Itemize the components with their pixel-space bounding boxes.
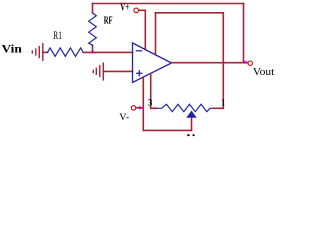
ground G2 (rotated, at non-inverting input) [93, 63, 103, 80]
wire V+ terminal stub [139, 9, 146, 11]
wire pin 5 top horizontal [156, 12, 224, 14]
svg-text:1: 1 [221, 99, 225, 109]
wire pin 5 right vertical down to pot [222, 13, 224, 109]
ground G1 (rotated, at input) [32, 44, 43, 61]
svg-text:V+: V+ [120, 1, 129, 13]
wire pin 5 vertical from op-amp top edge [155, 13, 157, 55]
svg-text:R1: R1 [53, 30, 62, 42]
wire node A up to RF bottom [92, 45, 94, 52]
wire V+ pin vertical (pin 7) [144, 10, 146, 49]
junction arrow at output node [244, 61, 247, 65]
terminal Vout circle [248, 61, 252, 65]
op-amp plus sign [137, 71, 142, 76]
wire R1 to node A (inverting input node) [83, 51, 132, 53]
wire pin 4 (V-) vertical down [142, 77, 144, 130]
svg-text:V-: V- [119, 113, 129, 123]
resistor RF [89, 13, 97, 45]
wire output from apex [172, 62, 248, 64]
terminal V- circle [131, 106, 135, 110]
wire V- terminal stub [136, 107, 143, 109]
op-amp minus sign [137, 50, 142, 52]
wire feedback right vertical [243, 4, 245, 63]
wire bottom horizontal wiper to V- column [143, 129, 191, 131]
potentiometer resistor body [157, 104, 214, 112]
wire feedback top horizontal [93, 3, 244, 5]
stray label dots bottom [187, 134, 194, 136]
junction arrow at V- node [139, 106, 143, 110]
wire ground G1 to R1 [43, 51, 48, 53]
svg-text:Vout: Vout [253, 67, 275, 78]
wire pot right lead [214, 107, 224, 109]
potentiometer wiper arrow [186, 111, 196, 118]
terminal V+ circle [134, 8, 139, 13]
resistor R1 [48, 48, 84, 56]
svg-text:RF: RF [104, 15, 113, 26]
wire wiper down [191, 118, 193, 131]
op-amp U1 triangle [133, 43, 172, 83]
svg-text:Vin: Vin [2, 42, 23, 56]
wire pin 1 corner to pot left [151, 107, 157, 109]
wire ground G2 to non-inverting input [103, 70, 132, 72]
wire RF top to feedback top line [92, 4, 94, 14]
svg-text:3: 3 [148, 99, 153, 109]
wire pin 1 vertical down [150, 73, 152, 108]
junction arrow at node A [90, 50, 95, 53]
